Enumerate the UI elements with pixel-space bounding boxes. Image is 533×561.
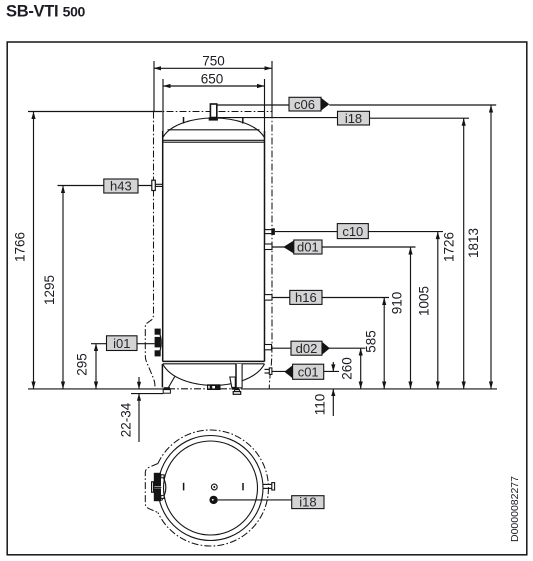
leader wire c10 (275, 231, 443, 233)
label h16 (290, 290, 322, 305)
svg-text:585: 585 (364, 330, 379, 353)
fitting stub d02 (265, 345, 272, 350)
top view drain dot i18 (209, 496, 217, 504)
top view flange collar arc (162, 475, 166, 501)
insulation outline right dash-dot (269, 112, 272, 389)
tank wall right (264, 131, 266, 362)
dimension 1766 (13, 112, 163, 390)
dimension 1005 (416, 232, 440, 389)
svg-text:c10: c10 (342, 224, 363, 239)
svg-text:260: 260 (340, 357, 355, 380)
floor line (28, 388, 497, 390)
dimension 295 (75, 344, 99, 390)
dimension 1813 (466, 105, 493, 389)
fitting stub h16 (265, 295, 273, 301)
top view dash-dot circle (158, 430, 269, 546)
dimension 585 (364, 298, 387, 390)
top view insulation bulge (145, 464, 158, 513)
svg-text:295: 295 (75, 353, 90, 376)
label c06 (289, 97, 329, 112)
svg-text:i18: i18 (299, 495, 316, 510)
leader wire d01 (272, 246, 416, 248)
lifting lug left (183, 117, 185, 124)
dimension 910 (390, 247, 413, 389)
svg-text:i18: i18 (345, 111, 362, 126)
svg-text:1295: 1295 (42, 275, 57, 305)
dimension 260 (340, 348, 363, 389)
title SB-VTI 500 (6, 3, 86, 21)
leader wire d02 (272, 347, 366, 349)
svg-text:d01: d01 (297, 240, 319, 255)
dimension 650 (163, 71, 265, 134)
tank dome arc (163, 118, 265, 138)
svg-text:h16: h16 (295, 290, 317, 305)
label i18 top (338, 111, 370, 126)
top view flange i01 (152, 473, 164, 501)
svg-text:i01: i01 (113, 336, 130, 351)
svg-text:110: 110 (312, 394, 327, 416)
tank dome tangent line (168, 129, 260, 131)
dimension 22-34 (119, 377, 164, 442)
label d02 (291, 341, 330, 356)
label c10 (337, 224, 368, 239)
fitting stub d01 (265, 244, 273, 250)
wire c06 to 1813 (329, 104, 496, 106)
dimension 1726 (442, 118, 466, 389)
svg-text:22-34: 22-34 (119, 402, 134, 437)
label i01 (107, 336, 138, 351)
fitting stub h43 (152, 180, 163, 190)
top view tick right (242, 483, 244, 490)
svg-text:750: 750 (202, 54, 225, 69)
top fitting nozzle c06 (209, 104, 218, 121)
tank wall left (162, 131, 164, 362)
leader wire i18 bottom (218, 499, 292, 501)
svg-text:D0000082277: D0000082277 (509, 476, 521, 542)
fitting pipe c01 (265, 368, 272, 375)
label d01 (283, 240, 322, 255)
dimension 1295 (42, 186, 65, 390)
svg-text:c01: c01 (298, 364, 319, 379)
flange i01 front view (155, 329, 162, 357)
right foot (230, 364, 242, 394)
tank top weld seam (163, 140, 265, 142)
svg-text:1726: 1726 (442, 232, 457, 262)
leader wire i01 (91, 343, 155, 345)
svg-text:d02: d02 (296, 341, 318, 356)
dimension 110 (312, 362, 335, 416)
top view stub right (263, 483, 275, 490)
dimension 750 (154, 54, 273, 112)
svg-text:SB-VTI 500: SB-VTI 500 (6, 3, 86, 21)
label h43 (104, 179, 138, 194)
lifting lug right (242, 117, 244, 124)
label i18 bottom (292, 495, 324, 510)
tank bottom weld band (163, 361, 265, 363)
leader wire c01 (272, 370, 339, 372)
leader wire h16 (272, 297, 389, 299)
top view outer circle (158, 436, 263, 541)
wire i18 to 1726 (370, 117, 470, 119)
top view center fitting circle (211, 484, 217, 490)
insulation outline left dash-dot (145, 112, 155, 387)
svg-text:1766: 1766 (13, 232, 28, 262)
left foot (162, 364, 174, 393)
tank dished bottom arc (163, 364, 265, 385)
top view tick left (183, 483, 185, 491)
leader wire h43 (58, 185, 152, 187)
insulation outline top dash-dot (154, 111, 273, 113)
leader wire c06 (217, 104, 289, 106)
fitting stub c10 (265, 228, 275, 235)
svg-text:1813: 1813 (466, 228, 481, 258)
svg-text:c06: c06 (294, 97, 315, 112)
svg-text:h43: h43 (110, 179, 132, 194)
top view inner circle (164, 441, 258, 535)
svg-text:650: 650 (201, 71, 224, 86)
svg-text:910: 910 (390, 292, 405, 315)
leader wire i18 top (218, 117, 338, 119)
drain fitting bottom center (207, 384, 221, 390)
svg-text:1005: 1005 (416, 286, 431, 316)
label c01 (284, 364, 323, 379)
